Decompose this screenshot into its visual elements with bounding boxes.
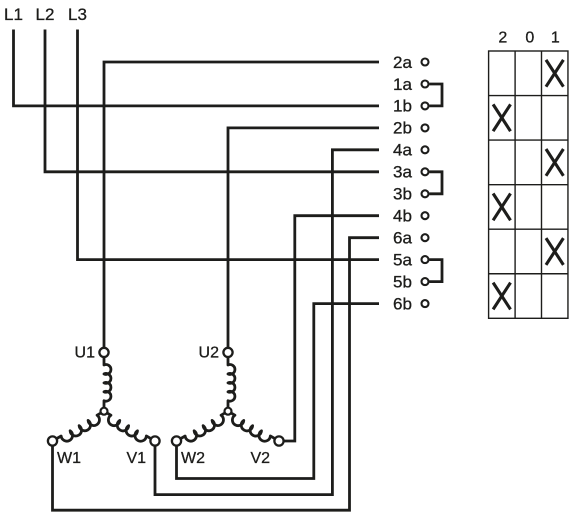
wire terminal 6b to motor terminal W2 [177,304,380,479]
svg-text:2: 2 [498,29,507,46]
wire L3 phase line to terminal 5a [78,30,380,260]
svg-text:L3: L3 [68,5,87,24]
contact closed X mark, row 5, switch position 1 [546,238,563,265]
svg-text:V2: V2 [251,450,271,467]
svg-text:6b: 6b [393,294,412,313]
winding coil V2 (right arm) [228,411,279,441]
svg-text:L2: L2 [36,5,55,24]
motor terminal V2 [274,436,283,445]
motor terminal W2 [172,436,181,445]
wire terminal 4b to motor terminal V2 [279,216,379,441]
contact closed X mark, row 1, switch position 1 [546,60,563,87]
svg-text:2b: 2b [393,119,412,138]
winding coil W2 (left arm) [177,411,228,441]
svg-text:1: 1 [551,29,560,46]
terminal 2a circle [422,59,429,66]
link bracket joining terminals 1a and 1b [429,84,442,106]
svg-text:1b: 1b [393,97,412,116]
terminal 4b circle [422,212,429,219]
terminal 4a circle [422,146,429,153]
svg-text:0: 0 [525,29,534,46]
terminal 5b circle [422,278,429,285]
terminal 5a circle [422,256,429,263]
wire terminal 6a to motor terminal W1 [53,238,380,511]
winding coil U1 (vertical phase coil) [104,352,111,411]
svg-text:W1: W1 [57,450,81,467]
wire L2 phase line to terminal 3a [45,30,379,172]
winding coil U2 (vertical phase coil) [228,352,235,411]
link bracket joining terminals 3a and 3b [429,172,442,194]
link bracket joining terminals 5a and 5b [429,260,442,282]
terminal 3b circle [422,190,429,197]
wire terminal 2a to motor terminal U1 [104,62,379,352]
contact closed X mark, row 3, switch position 1 [546,149,563,176]
terminal 6b circle [422,300,429,307]
svg-text:3b: 3b [393,185,412,204]
svg-text:1a: 1a [393,75,412,94]
svg-text:W2: W2 [181,450,205,467]
motor terminal V1 [150,436,159,445]
wire L1 phase line to terminal 1b [14,30,380,106]
terminal 6a circle [422,234,429,241]
motor terminal U2 [223,348,232,357]
svg-text:5a: 5a [393,250,412,269]
terminal 1b circle [422,102,429,109]
star point node of winding 2 [225,408,232,415]
contact closed X mark, row 2, switch position 2 [493,104,510,131]
motor terminal U1 [99,348,108,357]
svg-text:2a: 2a [393,53,412,72]
star point node of winding 1 [101,408,108,415]
wire terminal 4a to motor terminal V1 [155,150,379,495]
svg-text:U2: U2 [199,345,220,362]
svg-text:4b: 4b [393,207,412,226]
winding coil W1 (left arm) [53,411,104,441]
svg-text:V1: V1 [127,450,147,467]
terminal 2b circle [422,124,429,131]
winding coil V1 (right arm) [104,411,155,441]
svg-text:4a: 4a [393,141,412,160]
svg-text:5b: 5b [393,272,412,291]
terminal 3a circle [422,168,429,175]
motor terminal W1 [48,436,57,445]
svg-text:3a: 3a [393,163,412,182]
contact closed X mark, row 6, switch position 2 [493,283,510,310]
wire terminal 2b to motor terminal U2 [228,128,379,352]
switch position table grid [489,51,568,318]
svg-text:6a: 6a [393,229,412,248]
terminal 1a circle [422,81,429,88]
svg-text:U1: U1 [75,345,96,362]
contact closed X mark, row 4, switch position 2 [493,194,510,221]
svg-text:L1: L1 [4,5,23,24]
